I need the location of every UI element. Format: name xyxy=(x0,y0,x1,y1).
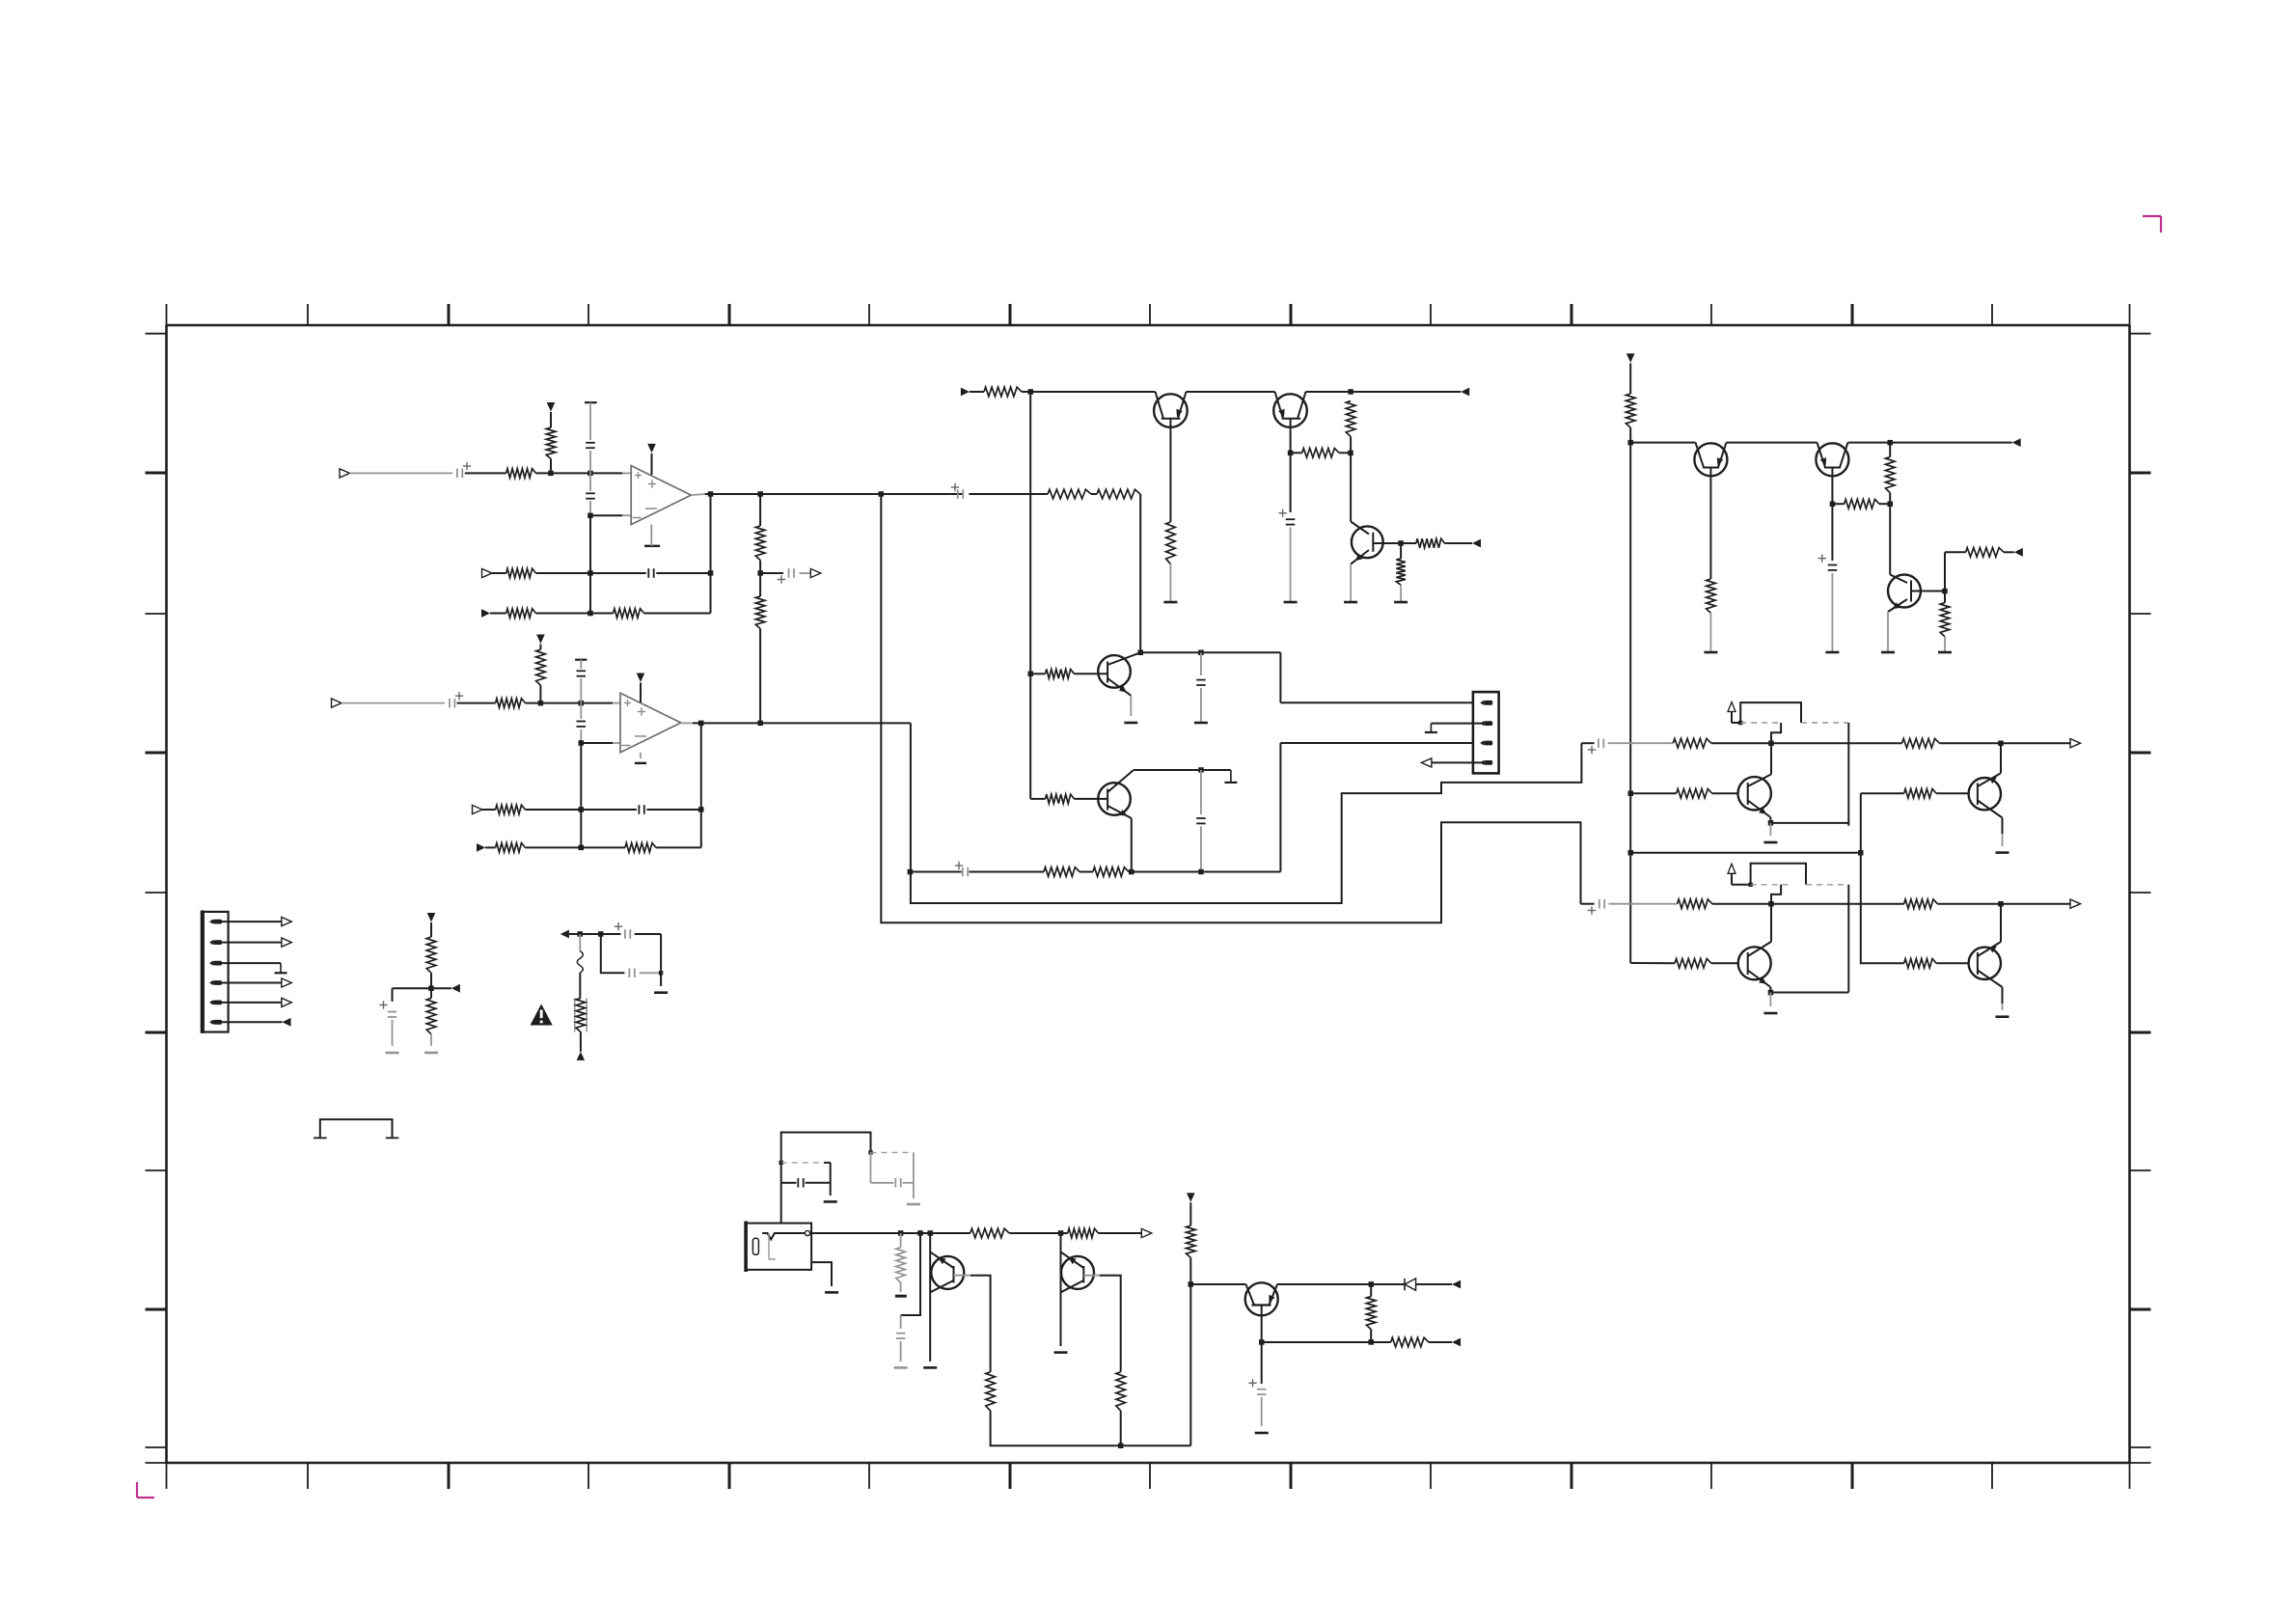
wire VR2 link xyxy=(1751,864,1849,993)
wire rowB out xyxy=(1937,901,2070,907)
capacitor C20 stub xyxy=(896,1334,906,1362)
resistor R40 row2 xyxy=(1068,1228,1099,1238)
wire CN2 pin4 wire xyxy=(1432,761,1482,763)
wire divider node xyxy=(428,973,451,998)
capacitor C18 switch left xyxy=(781,1163,831,1196)
transistor Q1 xyxy=(1154,392,1188,427)
node Q3 out arrow xyxy=(1472,539,1481,548)
wire protector bottom xyxy=(580,1032,582,1052)
wire CN2 pin2 stub xyxy=(1431,723,1481,725)
capacitor C2 op1 upper xyxy=(586,443,595,448)
resistor R36 rowB out xyxy=(1904,899,1938,909)
ground op1 V- bar xyxy=(644,525,660,546)
wire QM1 emitter xyxy=(1130,696,1132,716)
wire R46 leads xyxy=(1370,1284,1372,1342)
node rail supply arrow xyxy=(961,388,970,397)
resistor R38 Q11 base xyxy=(1904,959,1937,969)
resistor R49 fusible xyxy=(575,998,587,1032)
wire CN1 pin1 xyxy=(222,921,282,922)
wire Q9 emitter down xyxy=(2002,818,2004,847)
wire route ch-A to right xyxy=(881,494,1580,922)
node divider arrow xyxy=(451,984,460,993)
wire Q12 base wire xyxy=(954,1276,991,1372)
wire Q7 emitter down xyxy=(1887,612,1889,652)
node right rail arrow xyxy=(2012,438,2021,447)
capacitor C14 ch-B coupling xyxy=(955,862,968,876)
ground op2 V- bar xyxy=(635,753,646,763)
ground R18 bar xyxy=(1394,601,1408,604)
wire bottom bias stem xyxy=(1189,1202,1191,1225)
node OUT-A arrow xyxy=(2070,739,2081,748)
wire Q9 base row xyxy=(1861,792,1969,794)
ground Q3 emitter bar xyxy=(1344,601,1357,604)
resistor R21 QM1 base xyxy=(1046,670,1075,679)
capacitor C21 Q14 base xyxy=(1248,1379,1266,1394)
wire R27 junction xyxy=(1888,443,1894,507)
wire bias stem xyxy=(1629,363,1631,394)
node CN2 pin4 arrow xyxy=(1421,758,1432,767)
wire pullup to node op1 xyxy=(550,458,552,473)
wire sum node upper xyxy=(759,494,761,526)
ground pair bar xyxy=(654,991,668,994)
transistor Q3 xyxy=(1351,522,1401,564)
wire op2 -in drop xyxy=(580,743,582,847)
resistor R44 bottom bias xyxy=(1187,1225,1196,1257)
node protector arrow xyxy=(560,930,569,939)
frame border xyxy=(146,304,2151,1489)
vr VR1 wiper xyxy=(1728,702,1742,726)
resistor R17 Q3 base out xyxy=(1416,538,1445,548)
resistor R30 Q7 base gnd xyxy=(1940,603,1950,637)
wire op1 -in xyxy=(588,513,631,519)
resistor R5 op1 fb2b xyxy=(614,609,644,619)
wire op2 output xyxy=(681,721,911,727)
capacitor C15 Q6 base xyxy=(1818,554,1838,570)
wire op2 cap chain xyxy=(575,660,587,743)
ground Q1 bar xyxy=(1163,601,1177,604)
capacitor C1 input coupling xyxy=(457,462,471,478)
power V+ op1 xyxy=(647,444,656,475)
resistor R35 rowB xyxy=(1678,899,1712,909)
ground CN2 pin2 chassis xyxy=(1425,724,1437,732)
ground CN1 pin3 chassis xyxy=(275,963,287,973)
capacitor C4 op1 fb xyxy=(648,568,653,578)
capacitor C7 op2 upper xyxy=(577,671,587,675)
power V+ bottom xyxy=(1187,1193,1195,1202)
resistor R9 op2 pullup xyxy=(536,649,546,685)
power V+ right bias xyxy=(1626,353,1635,363)
resistor R28 mid right xyxy=(1845,499,1879,509)
resistor R37 Q10 base xyxy=(1675,959,1711,969)
capacitor C9 op2 fb xyxy=(639,805,643,814)
resistor R18 Q3 base gnd xyxy=(1396,559,1406,585)
transistor Q14 xyxy=(1190,1282,1277,1315)
wire op1 cap chain xyxy=(585,402,597,515)
resistor R23 ch-B series1 xyxy=(1044,867,1080,877)
ground C18 bar xyxy=(824,1200,837,1203)
resistor R10 op2 fb1 xyxy=(496,805,526,814)
wire CN1 pin5 xyxy=(222,1002,282,1004)
ground Q9 emitter bar xyxy=(1996,851,2009,854)
resistor R14 Q1 emitter xyxy=(1166,522,1176,564)
node fb arrow xyxy=(1452,1338,1461,1347)
wire CN1 pin2 xyxy=(222,942,282,944)
transistor Q8 xyxy=(1738,774,1772,817)
node OUT-B arrow xyxy=(2070,899,2081,908)
wire right bias vertical xyxy=(1628,427,1634,963)
wire junction to Q7r xyxy=(1889,504,1891,574)
wire jack switch linkage xyxy=(779,1133,873,1166)
wire Q3 base node xyxy=(1398,540,1416,546)
node monitor out arrow xyxy=(810,568,821,577)
transistor Q9 xyxy=(1969,773,2003,817)
wire jack out row xyxy=(810,1230,970,1236)
resistor R22 QM2 base xyxy=(1046,794,1075,804)
capacitor C19 switch right xyxy=(871,1152,914,1198)
wire op1 fb row2 xyxy=(490,611,711,617)
wire Q13 base wire xyxy=(1083,1276,1120,1372)
ground stub1 bar xyxy=(895,1295,907,1298)
capacitor C12 QM1 collector xyxy=(1196,652,1206,723)
transistor Q7 xyxy=(1888,575,1945,613)
wire bottom bias node xyxy=(1189,1257,1194,1445)
resistor R26 Q5 emitter xyxy=(1707,579,1716,613)
ground jack bar xyxy=(825,1291,838,1294)
wire Q11 emitter down xyxy=(2002,987,2004,1010)
wire row to arrow xyxy=(1099,1232,1142,1234)
ground QM1 emitter bar xyxy=(1124,722,1137,725)
wire op1 input xyxy=(350,472,506,474)
wire linkage to jack xyxy=(780,1183,782,1224)
power V+ pullup op1 xyxy=(547,402,556,412)
wire R48 to bar xyxy=(430,1034,432,1046)
wire op2 +in node xyxy=(525,701,620,706)
crop-mark bottom-left xyxy=(137,1482,154,1498)
transistor Q11 xyxy=(1969,942,2003,987)
warning safety triangle xyxy=(531,1004,553,1025)
capacitor C16 rowA coupling xyxy=(1581,739,1673,755)
wire op2 input xyxy=(342,702,496,704)
wire Q2 base lead xyxy=(1288,419,1294,512)
power V+ op2 xyxy=(637,674,645,703)
wire R30 to bar xyxy=(1944,591,1946,653)
capacitor C24 pair bottom xyxy=(601,934,664,977)
wire Q1 base lead xyxy=(1169,419,1171,522)
ground C12 bar xyxy=(1194,722,1208,725)
inductor L1 protector xyxy=(577,934,583,998)
power V+ pullup op2 xyxy=(536,635,545,645)
resistor R1 op1 input xyxy=(506,469,536,479)
wire rail lead xyxy=(970,391,984,393)
power V+ left divider xyxy=(427,913,436,922)
wire Q10 collector up xyxy=(1770,904,1772,942)
wire CN1 pin6 xyxy=(222,1021,283,1023)
wire QM1 base wire xyxy=(1030,673,1107,674)
wire VR1 link xyxy=(1740,702,1848,826)
resistor R8 op2 input xyxy=(496,699,526,708)
connector CN2 xyxy=(1473,692,1499,773)
wire Q6 cap to bar xyxy=(1831,573,1833,652)
wire QM2 collector node xyxy=(1134,767,1231,773)
wire op1 +in node xyxy=(536,471,632,477)
ground C21 bar xyxy=(1255,1432,1269,1435)
wire Q11 collector up xyxy=(2000,904,2002,942)
wire pullup to node op2 xyxy=(539,685,541,702)
wire op2 fb row1 xyxy=(482,807,701,812)
node op2 fb row1 arrow xyxy=(473,805,483,813)
node CN1 pin6 arrow xyxy=(283,1018,291,1027)
wire row mid xyxy=(1009,1230,1068,1236)
transistor Q13 xyxy=(1061,1233,1095,1346)
resistor R2 op1 pullup xyxy=(546,427,556,458)
wire ch-A to QM1 xyxy=(969,494,1140,652)
wire pullup stem op2 xyxy=(539,645,541,650)
node rail end arrow xyxy=(1461,388,1469,397)
wire pullup stem op1 xyxy=(550,412,552,427)
transistor QM2 xyxy=(1098,770,1134,818)
wire mid row xyxy=(1291,452,1352,454)
node bottom out arrow xyxy=(1141,1228,1152,1237)
wire Q7 base node xyxy=(1942,552,1965,593)
wire Q11 base corner xyxy=(1861,962,1904,964)
wire Q10 base row xyxy=(1630,962,1738,964)
capacitor C8 op2 lower xyxy=(577,722,587,727)
ground Q6 bar xyxy=(1825,651,1839,654)
ground R30 bar xyxy=(1938,651,1952,654)
node CN1 pin1 arrow xyxy=(282,918,292,926)
wire op1 output xyxy=(691,491,964,497)
wire to CN2 pin1 xyxy=(1280,652,1473,702)
wire rowA xyxy=(1711,741,1902,747)
wire top rail xyxy=(1022,389,1461,395)
node op1 fb row1 arrow xyxy=(482,568,493,577)
capacitor C13 QM2 collector xyxy=(1196,770,1206,872)
wire rowA out xyxy=(1939,741,2070,747)
transistor Q10 xyxy=(1738,942,1771,987)
wire Q2 cap to bar xyxy=(1290,528,1292,603)
resistor R7 divider lower xyxy=(755,596,765,629)
wire op2 fb row2 xyxy=(485,845,701,851)
wire R43 to rail xyxy=(1120,1411,1122,1445)
wire stub2 xyxy=(901,1233,920,1329)
wire ch-B row xyxy=(908,869,1281,875)
resistor R4 op1 fb2a xyxy=(506,609,536,619)
resistor R29 Q7 out xyxy=(1966,548,2004,558)
wire divider stem xyxy=(430,922,432,937)
wire Q8 base row xyxy=(1630,792,1737,794)
resistor R43 Q13 base drop xyxy=(1116,1372,1126,1411)
wire jumper W1 xyxy=(314,1119,398,1138)
wire R17 to arrow xyxy=(1445,542,1473,544)
connector CN1 xyxy=(203,911,229,1033)
wire CN1 pin4 xyxy=(222,982,282,984)
wire Q8 collector up xyxy=(1770,743,1772,774)
resistor R25 right bias xyxy=(1626,394,1635,427)
wire rail left corner xyxy=(991,1411,1191,1448)
resistor R27 rail drop right xyxy=(1885,457,1895,493)
node CN1 pin2 arrow xyxy=(282,938,292,947)
wire QM2 emitter xyxy=(1131,818,1133,872)
wire Q1 res to bar xyxy=(1169,564,1171,603)
wire Q3 emitter down xyxy=(1350,564,1352,602)
wire D1 to arrow xyxy=(1416,1283,1453,1285)
wire protector top xyxy=(569,931,604,937)
capacitor C3 op1 lower xyxy=(586,493,595,498)
wire QM1 collector node xyxy=(1138,650,1281,656)
resistor R13 rail xyxy=(984,387,1022,397)
transistor Q5 xyxy=(1694,443,1727,477)
diode D1 xyxy=(1405,1279,1416,1290)
node IN-B input arrow xyxy=(332,699,342,707)
wire jack sleeve gnd xyxy=(811,1262,832,1286)
wire op1 feedback drop xyxy=(708,494,714,614)
power protector up xyxy=(577,1052,586,1060)
resistor R46 vertical xyxy=(1366,1297,1376,1330)
node CN1 pin5 arrow xyxy=(282,998,292,1006)
resistor R33 Q8 base xyxy=(1677,789,1712,799)
ground Q13 bar xyxy=(1054,1351,1068,1354)
wire pair right xyxy=(660,934,662,986)
transistor Q6 xyxy=(1816,443,1848,477)
wire Q6 base lead xyxy=(1830,468,1836,562)
resistor R6 divider upper xyxy=(755,526,765,561)
wire QM2 base wire xyxy=(1030,798,1107,800)
node Q7 out arrow xyxy=(2014,548,2023,557)
capacitor C5 monitor out xyxy=(760,568,810,584)
capacitor C10 Q2 base xyxy=(1278,509,1295,525)
wire row3 bias link xyxy=(1630,850,1863,856)
transistor QM1 xyxy=(1098,652,1140,696)
wire base bias vertical xyxy=(1860,793,1862,963)
resistor R15 rail drop xyxy=(1346,401,1355,437)
wire rowB xyxy=(1712,901,1904,907)
wire right rail xyxy=(1630,440,2012,446)
ground QM2 chassis stub xyxy=(1224,770,1237,783)
wire Q10 emitter node xyxy=(1768,987,1849,1006)
wire CN1 pin3 xyxy=(222,962,281,964)
node CN1 pin4 arrow xyxy=(282,978,292,987)
crop-mark top-right xyxy=(2143,216,2161,233)
ground C20 bar xyxy=(894,1366,908,1369)
ground Q8 emitter bar xyxy=(1763,841,1777,844)
wire op2 -in xyxy=(579,740,621,746)
ground C19 bar xyxy=(907,1203,920,1206)
capacitor C17 rowB coupling xyxy=(1581,899,1678,915)
resistor R48 divider bottom xyxy=(426,998,436,1033)
node IN-A input arrow xyxy=(340,469,350,478)
wire R18 to bar xyxy=(1400,543,1402,602)
node op2 fb row2 arrow xyxy=(477,843,485,852)
wire op1 fb row1 xyxy=(492,570,711,576)
resistor R39 row1 xyxy=(970,1228,1009,1238)
capacitor C23 pair top xyxy=(601,922,661,939)
wire op1 -in drop xyxy=(589,515,591,613)
capacitor C11 ch-A coupling xyxy=(951,483,963,499)
wire sum node mid xyxy=(757,561,763,597)
node D1 arrow xyxy=(1452,1280,1461,1289)
resistor R47 divider top xyxy=(426,937,436,973)
resistor R19 ch-A series1 xyxy=(1048,489,1091,499)
ground Q12 bar xyxy=(923,1366,937,1369)
wire route ch-B to right xyxy=(911,723,1582,903)
wire Q9 collector up xyxy=(2000,743,2002,773)
wire to CN2 pin3 xyxy=(1280,743,1473,872)
wire Q14 out row xyxy=(1277,1281,1405,1287)
op-amp U1B xyxy=(620,693,681,753)
node op1 fb row2 arrow xyxy=(481,609,490,618)
wire op2 feedback drop xyxy=(698,723,704,847)
wire Q11 base row xyxy=(1936,962,1968,964)
vr VR2 wiper xyxy=(1728,864,1753,887)
resistor R31 rowA xyxy=(1673,738,1711,748)
resistor R45 fb out xyxy=(1391,1337,1429,1347)
resistor R34 Q9 base xyxy=(1904,789,1937,799)
ground Q7 emitter bar xyxy=(1881,651,1895,654)
ground Q11 emitter bar xyxy=(1996,1015,2009,1018)
ground R48 bar xyxy=(424,1052,438,1055)
wire Q5 res to bar xyxy=(1709,613,1711,652)
wire Q8 emitter node xyxy=(1768,817,1849,836)
resistor R32 rowA out xyxy=(1902,738,1940,748)
wire C21 to bar xyxy=(1261,1397,1263,1426)
wire junction to Q3 xyxy=(1350,453,1352,521)
wire stub1 xyxy=(900,1233,902,1292)
resistor R16 Q2-junction xyxy=(1302,449,1339,458)
wire R29 to arrow xyxy=(2004,551,2014,553)
wire Q5 base lead xyxy=(1709,468,1711,580)
wire R45 to arrow xyxy=(1429,1341,1452,1343)
resistor R20 ch-A series2 xyxy=(1097,489,1140,499)
wire R15 to junction xyxy=(1348,437,1353,456)
transistor Q12 xyxy=(930,1233,964,1362)
ground Q10 emitter bar xyxy=(1763,1012,1777,1015)
capacitor C6 input coupling B xyxy=(450,692,463,707)
wire bias vertical xyxy=(1028,392,1034,799)
wire divider to op2 row xyxy=(759,629,761,724)
capacitor C22 divider xyxy=(379,988,431,1046)
resistor R41 stub xyxy=(896,1248,906,1282)
wire mid row right xyxy=(1832,503,1890,505)
wire Q14 base lead xyxy=(1259,1306,1265,1385)
resistor R3 op1 fb1 xyxy=(506,568,536,578)
op-amp U1A xyxy=(631,466,691,525)
ground Q5 bar xyxy=(1704,651,1717,654)
resistor R12 op2 fb2b xyxy=(625,843,656,853)
transistor Q2 xyxy=(1273,392,1307,427)
resistor R11 op2 fb2a xyxy=(496,843,526,853)
resistor R24 ch-B series2 xyxy=(1093,867,1129,877)
resistor R42 Q12 base drop xyxy=(986,1372,996,1411)
connector JACK J1 xyxy=(746,1222,811,1273)
wire Q14 fb row xyxy=(1262,1339,1391,1345)
ground C22 bar xyxy=(386,1052,399,1055)
ground Q2 bar xyxy=(1284,601,1298,604)
